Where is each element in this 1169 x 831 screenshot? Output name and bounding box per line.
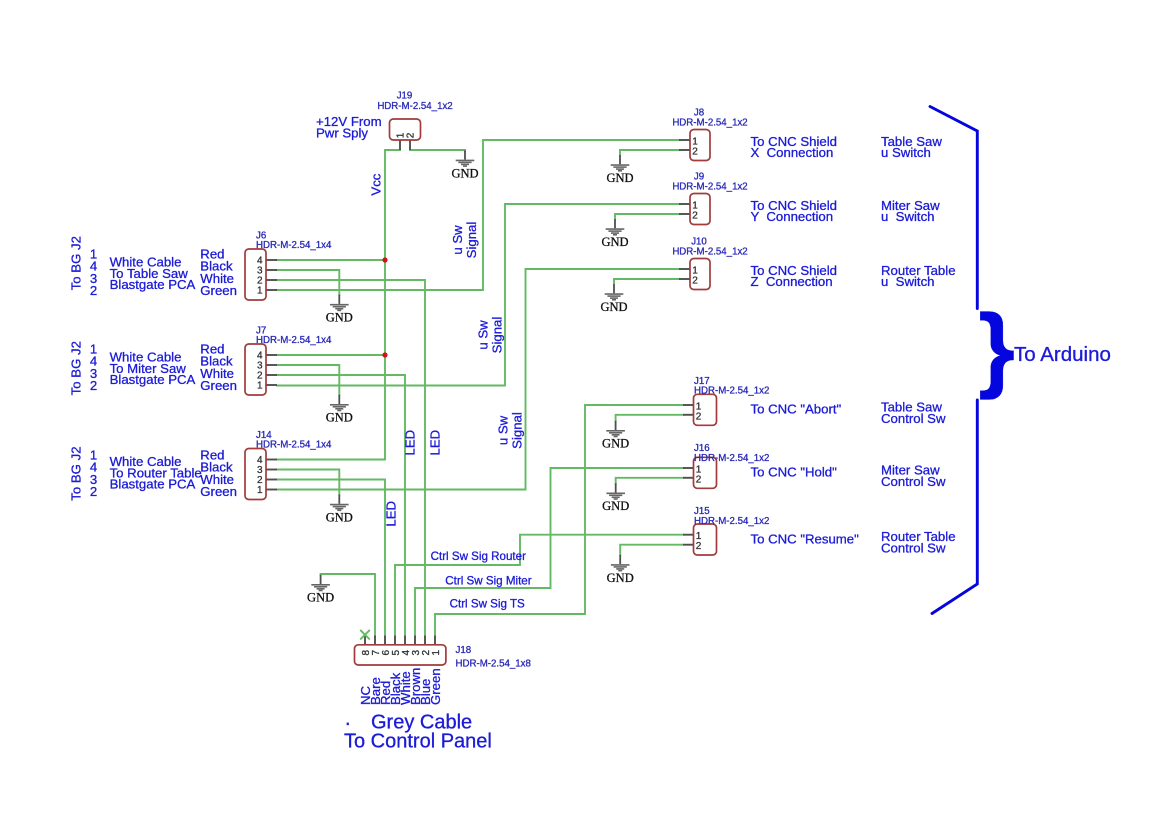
connector J14 HDR-M-2.54_1x4 — [245, 449, 277, 500]
svg-text:GND: GND — [451, 166, 478, 180]
wire J9.2 to GND — [615, 214, 679, 219]
pin numbers J8 1 2 — [692, 137, 698, 158]
svg-text:2: 2 — [90, 283, 97, 298]
wire J6.3 to GND — [277, 270, 339, 295]
net label Ctrl Sw Sig Router — [431, 550, 526, 563]
svg-text:2: 2 — [90, 484, 97, 499]
wire u Sw Signal: J14.1 to J10.1 — [277, 269, 679, 490]
designator J10 — [672, 237, 747, 258]
svg-text:.: . — [345, 708, 351, 730]
pin numbers J7 4 3 2 1 — [257, 350, 263, 391]
svg-text:LED: LED — [428, 430, 443, 456]
wire LED: J14.2 to J18.6 — [277, 480, 385, 636]
svg-text:GND: GND — [307, 591, 334, 605]
pin order labels 1 4 3 2 (J7) — [90, 341, 97, 393]
designator J6 — [256, 231, 332, 252]
svg-text:HDR-M-2.54_1x2: HDR-M-2.54_1x2 — [672, 118, 747, 129]
no-connect X on J18 pin 8 — [360, 630, 370, 640]
label Table Saw / u Switch — [881, 134, 942, 160]
net label LED (J14 wire) — [384, 501, 399, 527]
wire J15.2 to GND — [620, 545, 683, 555]
label To CNC "Hold" (J16) — [751, 465, 838, 480]
label Grey Cable — [371, 712, 472, 734]
svg-text:u Sw: u Sw — [496, 415, 511, 445]
ground J9 net — [601, 219, 628, 249]
svg-text:Signal: Signal — [489, 317, 504, 354]
pin numbers J14 4 3 2 1 — [257, 455, 263, 496]
label +12V From Pwr Sply — [316, 114, 382, 140]
label To CNC "Abort" (J17) — [751, 402, 842, 417]
svg-text:Control Sw: Control Sw — [881, 474, 946, 489]
net label Ctrl Sw Sig Miter — [445, 575, 531, 588]
svg-text:u Switch: u Switch — [881, 274, 935, 289]
wire u Sw Signal: J7.1 to J9.1 — [277, 204, 679, 386]
label Router Table / u Switch — [881, 263, 956, 289]
node To BG J2 (J7) — [69, 341, 84, 395]
ground J19 net — [451, 150, 478, 180]
connector J15 HDR-M-2.54_1x2 — [683, 524, 717, 555]
svg-text:To Control Panel: To Control Panel — [344, 731, 492, 753]
svg-text:Y Connection: Y Connection — [751, 209, 834, 224]
svg-text:Control Sw: Control Sw — [881, 541, 946, 556]
svg-text:HDR-M-2.54_1x2: HDR-M-2.54_1x2 — [694, 516, 769, 527]
svg-text:GND: GND — [326, 311, 353, 325]
svg-text:2: 2 — [406, 132, 417, 138]
wire J8.2 to GND — [620, 150, 679, 155]
svg-text:u Switch: u Switch — [881, 145, 931, 160]
svg-text:Green: Green — [200, 378, 237, 393]
wire J19.2 to GND — [410, 150, 465, 151]
svg-text:Signal: Signal — [510, 412, 525, 449]
svg-text:HDR-M-2.54_1x8: HDR-M-2.54_1x8 — [456, 659, 531, 670]
designator J9 — [672, 172, 747, 193]
label Miter Saw / Control Sw — [881, 462, 946, 489]
designator J14 — [256, 430, 332, 451]
wire J10.2 to GND — [614, 279, 679, 284]
svg-text:Ctrl Sw Sig TS: Ctrl Sw Sig TS — [450, 598, 525, 611]
svg-text:HDR-M-2.54_1x4: HDR-M-2.54_1x4 — [256, 440, 332, 451]
svg-text:GND: GND — [607, 571, 634, 585]
pin numbers J6 4 3 2 1 — [257, 255, 263, 296]
ground J17 net — [602, 421, 629, 451]
svg-text:To BG J2: To BG J2 — [69, 236, 84, 290]
net label Ctrl Sw Sig TS — [450, 598, 525, 611]
svg-text:u Sw: u Sw — [475, 320, 490, 350]
svg-text:To CNC "Resume": To CNC "Resume" — [751, 531, 860, 546]
svg-text:Green: Green — [200, 283, 237, 298]
wire u Sw Signal: J6.1 to J8.1 — [277, 140, 679, 290]
label Router Table / Control Sw — [881, 529, 956, 556]
svg-text:HDR-M-2.54_1x2: HDR-M-2.54_1x2 — [694, 385, 769, 396]
svg-text:GND: GND — [600, 300, 627, 314]
pin numbers J17 1 2 — [696, 402, 702, 423]
designator J8 — [672, 108, 747, 129]
svg-text:2: 2 — [696, 474, 702, 485]
svg-text:GND: GND — [602, 437, 629, 451]
label White Cable To Table Saw Blastgate PCA — [110, 255, 196, 292]
label To CNC Shield / Y Connection (J9) — [751, 198, 837, 224]
svg-text:Blastgate PCA: Blastgate PCA — [110, 372, 196, 387]
net label u Sw Signal (J8 wire) — [450, 222, 479, 259]
junction Vcc / J6.4 — [382, 257, 387, 262]
designator J7 — [256, 326, 332, 347]
svg-text:1: 1 — [431, 650, 442, 656]
svg-text:Green: Green — [200, 484, 237, 499]
net label u Sw Signal (J10 wire) — [496, 412, 525, 449]
connector J9 HDR-M-2.54_1x2 — [679, 194, 710, 225]
svg-text:2: 2 — [692, 147, 698, 158]
designator J19 — [377, 90, 452, 112]
net label Vcc — [369, 173, 384, 195]
node To BG J2 (J6) — [69, 236, 84, 290]
svg-text:HDR-M-2.54_1x2: HDR-M-2.54_1x2 — [672, 247, 747, 258]
ground J6 net — [326, 295, 353, 325]
J18 wire color labels NC Bare Red Black White Brown Blue Green — [358, 668, 443, 705]
connector J8 HDR-M-2.54_1x2 — [679, 130, 710, 161]
svg-text:u Switch: u Switch — [881, 209, 935, 224]
svg-text:To BG J2: To BG J2 — [69, 341, 84, 395]
label . — [345, 708, 351, 730]
pin numbers J19 1 2 — [396, 132, 417, 138]
svg-text:To CNC "Abort": To CNC "Abort" — [751, 402, 842, 417]
wire Vcc branch to J6 pin4 — [277, 259, 385, 261]
svg-text:u Sw: u Sw — [450, 225, 465, 255]
net label LED (J6 wire) — [428, 430, 443, 456]
wire J7.3 to GND — [277, 365, 339, 395]
connector J19 HDR-M-2.54_1x2 — [390, 119, 421, 150]
connector J17 HDR-M-2.54_1x2 — [683, 394, 717, 425]
svg-text:Pwr Sply: Pwr Sply — [316, 125, 368, 140]
svg-text:GND: GND — [602, 499, 629, 513]
net label LED (J7 wire) — [403, 430, 418, 456]
svg-text:To Arduino: To Arduino — [1014, 343, 1111, 366]
wire Vcc: J19.1 to J6.4/J7.4/J14.4 — [277, 150, 400, 460]
svg-text:HDR-M-2.54_1x2: HDR-M-2.54_1x2 — [694, 453, 769, 464]
node To BG J2 (J14) — [69, 446, 84, 500]
label To CNC Shield / Z Connection (J10) — [751, 263, 837, 289]
wire J14.3 to GND — [277, 470, 339, 495]
svg-text:GND: GND — [326, 411, 353, 425]
svg-text:Blastgate PCA: Blastgate PCA — [110, 476, 196, 491]
svg-text:1: 1 — [257, 485, 263, 496]
svg-text:LED: LED — [384, 501, 399, 527]
wire color labels Red Black White Green (J6) — [200, 246, 237, 298]
wire J16.2 to GND — [616, 478, 683, 484]
svg-text:2: 2 — [90, 378, 97, 393]
svg-text:Signal: Signal — [464, 222, 479, 259]
connector J18 HDR-M-2.54_1x8 — [355, 636, 446, 665]
svg-text:To CNC "Hold": To CNC "Hold" — [751, 465, 838, 480]
wire J17.2 to GND — [616, 415, 683, 421]
designator J17 — [694, 376, 769, 397]
svg-text:HDR-M-2.54_1x2: HDR-M-2.54_1x2 — [377, 101, 452, 112]
svg-text:To BG J2: To BG J2 — [69, 446, 84, 500]
wire Ctrl Sw Sig Miter: J18.3 to J16.1 — [415, 468, 683, 636]
wire J18.7 to GND — [321, 574, 375, 636]
ground J16 net — [602, 483, 629, 513]
pin numbers J15 1 2 — [696, 531, 702, 552]
brace upper arm — [930, 107, 977, 309]
ground J14 net — [326, 495, 353, 525]
svg-text:1: 1 — [257, 285, 263, 296]
wire Ctrl Sw Sig TS: J18.1 to J17.1 — [435, 405, 683, 636]
svg-text:Ctrl Sw Sig Router: Ctrl Sw Sig Router — [431, 550, 526, 563]
svg-text:Vcc: Vcc — [369, 173, 384, 195]
designator J18 — [456, 645, 531, 670]
svg-text:Ctrl Sw Sig Miter: Ctrl Sw Sig Miter — [445, 575, 531, 588]
svg-text:HDR-M-2.54_1x2: HDR-M-2.54_1x2 — [672, 182, 747, 193]
svg-text:J19: J19 — [397, 90, 413, 101]
pin order labels 1 4 3 2 (J14) — [90, 447, 97, 499]
connector J7 HDR-M-2.54_1x4 — [245, 344, 277, 395]
svg-text:Control Sw: Control Sw — [881, 411, 946, 426]
brace lower arm — [932, 400, 977, 614]
svg-text:2: 2 — [696, 541, 702, 552]
ground J7 net — [326, 395, 353, 425]
svg-text:Green: Green — [428, 668, 443, 705]
connector J10 HDR-M-2.54_1x2 — [679, 259, 710, 290]
connector J16 HDR-M-2.54_1x2 — [683, 457, 717, 488]
wire Ctrl Sw Sig Router: J18.5 to J15.1 — [395, 535, 683, 636]
svg-text:GND: GND — [326, 511, 353, 525]
label To CNC Shield / X Connection (J8) — [751, 134, 837, 160]
wire Vcc branch to J7 pin4 — [277, 354, 385, 356]
designator J16 — [694, 443, 769, 464]
svg-text:GND: GND — [606, 171, 633, 185]
label Miter Saw / u Switch — [881, 198, 940, 224]
wire color labels Red Black White Green (J14) — [200, 447, 237, 499]
pin numbers J16 1 2 — [696, 465, 702, 486]
ground J15 net — [607, 555, 634, 585]
wire LED: J7.2 to J18.4 — [277, 375, 405, 636]
pin numbers J9 1 2 — [692, 201, 698, 222]
ground J10 net — [600, 284, 627, 314]
svg-text:2: 2 — [696, 411, 702, 422]
wire LED: J6.2 to J18.2 — [277, 280, 425, 636]
svg-text:HDR-M-2.54_1x4: HDR-M-2.54_1x4 — [256, 335, 332, 346]
svg-text:X Connection: X Connection — [751, 145, 834, 160]
pin order labels 1 4 3 2 (J6) — [90, 246, 97, 298]
junction Vcc / J7.4 — [382, 352, 387, 357]
svg-text:}: } — [978, 296, 1015, 401]
label To CNC "Resume" (J15) — [751, 531, 860, 546]
pin numbers J10 1 2 — [692, 266, 698, 287]
label To Control Panel — [344, 731, 492, 753]
svg-text:GND: GND — [601, 235, 628, 249]
svg-text:1: 1 — [257, 380, 263, 391]
wire color labels Red Black White Green (J7) — [200, 341, 237, 393]
svg-text:2: 2 — [692, 276, 698, 287]
net label u Sw Signal (J9 wire) — [475, 317, 504, 354]
connector J6 HDR-M-2.54_1x4 — [245, 249, 277, 300]
ground J8 net — [606, 155, 633, 185]
svg-text:Z Connection: Z Connection — [751, 274, 833, 289]
designator J15 — [694, 506, 769, 527]
brace curly bracket — [978, 296, 1015, 401]
label White Cable To Miter Saw Blastgate PCA — [110, 350, 196, 387]
svg-text:J18: J18 — [456, 645, 472, 656]
svg-text:LED: LED — [403, 430, 418, 456]
svg-text:2: 2 — [692, 211, 698, 222]
label White Cable To Router Table Blastgate PCA — [110, 454, 202, 491]
svg-text:Blastgate PCA: Blastgate PCA — [110, 277, 196, 292]
svg-text:HDR-M-2.54_1x4: HDR-M-2.54_1x4 — [256, 240, 332, 251]
ground J18 net — [307, 575, 334, 605]
pin numbers J18 8 7 6 5 4 3 2 1 — [361, 650, 442, 656]
label Table Saw / Control Sw — [881, 399, 946, 426]
label To Arduino — [1014, 343, 1111, 366]
